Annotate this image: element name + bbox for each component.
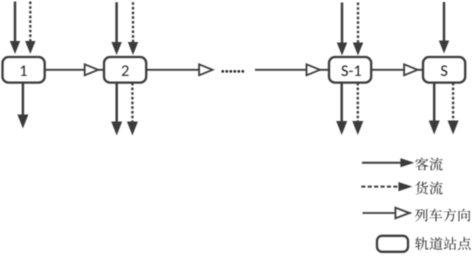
train direction arrow into station S-1 (255, 64, 329, 75)
train direction arrow from station 2 (147, 64, 213, 75)
legend label rail station (415, 237, 471, 250)
freight flow arrow out of station S-1 (352, 83, 363, 135)
legend label passenger flow (415, 158, 442, 171)
passenger flow arrow out of station S-1 (336, 83, 347, 135)
passenger flow arrow into station S-1 (337, 3, 347, 56)
legend station symbol (377, 236, 408, 252)
legend label freight flow (415, 181, 442, 194)
legend label train direction (415, 209, 470, 222)
ellipsis between stations (221, 70, 244, 73)
freight flow arrow into station 2 (128, 2, 138, 55)
station 1 box (3, 57, 45, 83)
train direction arrow station 1 to 2 (45, 64, 104, 75)
station S box (423, 57, 465, 83)
legend freight flow arrow (361, 182, 412, 191)
passenger flow arrow into station S (439, 2, 449, 54)
freight flow arrow into station S-1 (353, 3, 363, 56)
freight flow arrow out of station 2 (127, 83, 138, 136)
passenger flow arrow into station 2 (111, 2, 121, 55)
freight flow arrow into station 1 (25, 2, 35, 55)
station 2 box (104, 57, 146, 83)
passenger flow arrow into station 1 (10, 2, 20, 55)
passenger flow arrow out of station 1 (17, 83, 28, 129)
freight flow arrow out of station S (448, 83, 459, 135)
passenger flow arrow out of station 2 (111, 83, 122, 136)
legend passenger flow arrow (362, 158, 414, 167)
legend train direction arrow (363, 208, 412, 219)
train direction arrow station S-1 to S (371, 64, 423, 75)
station S-1 box (329, 57, 371, 83)
passenger flow arrow out of station S (429, 83, 440, 135)
